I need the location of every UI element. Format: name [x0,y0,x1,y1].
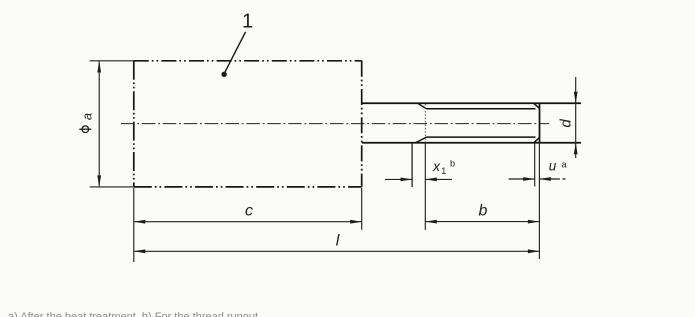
leader dot [221,72,226,77]
x1 arrow (left, pointing right) [401,178,413,182]
b dimension: left extension line (dotted through shank) [424,104,426,143]
thread runout diagonal bottom [416,137,427,142]
d dimension line [575,77,577,158]
l arrow left [134,249,146,253]
end chamfer bottom [534,137,540,142]
left edge extension (c and l) [133,188,135,262]
svg-text:x: x [432,158,441,174]
u right tail [539,178,565,180]
body cylinder (phantom outline) top edge [134,60,362,62]
x1 left tail [385,178,412,180]
svg-text:b: b [450,158,455,168]
svg-text:l: l [336,233,340,250]
u arrow (left, pointing right) [523,177,535,181]
b dimension line [426,221,539,223]
leader line for item 1 [224,32,245,74]
l dimension line [134,250,539,252]
thread runout diagonal top [418,104,427,109]
u dimension: left extension line [534,143,536,187]
c dimension line [134,221,361,223]
phi-a dimension: bottom extension line [90,186,134,188]
x1 right tail [425,178,452,180]
footnote (clipped at page bottom) [8,311,261,317]
c arrow left [134,220,146,224]
shank outer bottom line + d extension [362,142,581,144]
svg-text:d: d [557,119,574,128]
d arrow (top, pointing down) [574,92,578,104]
svg-text:c: c [245,202,253,219]
svg-text:a: a [561,160,566,170]
svg-text:u: u [549,159,557,174]
u arrow (right, pointing left) [539,177,551,181]
u left tail [509,178,535,180]
x1 arrow (right, pointing left) [425,178,437,182]
b arrow right [528,220,540,224]
d arrow (bottom, pointing up) [574,143,578,155]
b left extension line solid part [424,143,426,230]
end face [539,104,541,143]
c arrow right [350,220,362,224]
phi-a arrow up [97,61,101,73]
svg-text:1: 1 [441,166,446,176]
phi-a arrow down [97,175,101,187]
c dimension: right extension line [361,188,363,230]
phi-a dimension: top extension line [90,60,134,62]
centerline [121,123,549,125]
shank outer top line + d extension [362,102,581,104]
x1 dimension: left extension line [411,143,413,187]
svg-text:a: a [80,113,95,120]
b arrow left [425,220,437,224]
body cylinder right edge [361,61,363,187]
svg-text:b: b [479,202,488,219]
thread minor line top [427,108,536,110]
thread minor line bottom [427,136,536,138]
l arrow right [528,249,540,253]
body cylinder bottom edge [134,186,362,188]
end chamfer top [534,103,540,108]
phi-a dimension line [98,61,100,186]
right end extension line (b, u, l) [538,143,540,259]
body cylinder left edge [133,61,135,187]
svg-text:1: 1 [242,11,253,33]
